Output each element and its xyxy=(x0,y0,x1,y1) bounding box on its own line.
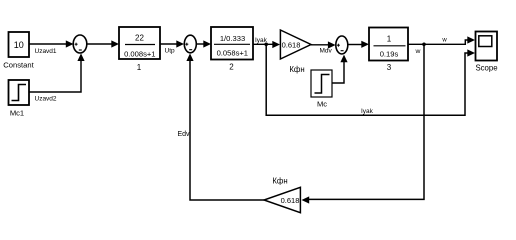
svg-text:1: 1 xyxy=(387,35,392,44)
svg-text:3: 3 xyxy=(387,63,392,72)
transfer function block 3 (1 / 0.19s) xyxy=(369,28,408,73)
step source Mc1 xyxy=(9,80,30,118)
svg-text:Iyak: Iyak xyxy=(361,108,374,115)
svg-text:Кфн: Кфн xyxy=(289,65,304,74)
svg-text:Uzavd2: Uzavd2 xyxy=(35,96,57,103)
svg-text:w: w xyxy=(415,48,421,55)
svg-text:0.618: 0.618 xyxy=(282,41,301,50)
svg-text:Mc: Mc xyxy=(317,100,327,109)
gain block Kfn top (0.618) xyxy=(280,30,311,74)
sum junction S2 xyxy=(184,35,196,53)
svg-text:Кфн: Кфн xyxy=(272,177,287,186)
svg-text:w: w xyxy=(441,38,447,44)
scope block Scope xyxy=(475,32,497,73)
svg-text:0.19s: 0.19s xyxy=(380,50,399,59)
gain block Kfn bottom (0.618) xyxy=(264,177,300,213)
junction node on Iyak wire xyxy=(264,43,268,47)
constant block Constant value 10 xyxy=(3,32,34,70)
svg-text:Scope: Scope xyxy=(475,64,497,73)
svg-text:Constant: Constant xyxy=(3,61,34,70)
wire S3 to block 3 xyxy=(348,41,369,48)
wire w to Scope input 1 xyxy=(408,36,475,55)
svg-text:0.618: 0.618 xyxy=(281,196,300,205)
svg-text:Mc1: Mc1 xyxy=(10,109,24,118)
transfer function block 2 (1/0.333 / 0.058s+1) xyxy=(211,27,253,72)
svg-text:Mdv: Mdv xyxy=(320,48,333,55)
wire w feedback down to gain Kfn bottom xyxy=(302,44,425,203)
junction node on w wire xyxy=(422,43,426,47)
wire Uzavd1 xyxy=(29,40,74,55)
svg-text:0.058s+1: 0.058s+1 xyxy=(217,49,248,58)
wire Mc to S3 xyxy=(332,55,348,83)
wire Uzavd2 xyxy=(29,53,85,102)
svg-text:2: 2 xyxy=(229,63,234,72)
step source Mc xyxy=(311,70,332,109)
svg-text:10: 10 xyxy=(14,40,24,50)
wire Iyak feedback to Scope input 2 xyxy=(266,44,475,115)
svg-text:Edv: Edv xyxy=(178,131,191,138)
wire Mdv xyxy=(311,41,336,54)
svg-text:0.008s+1: 0.008s+1 xyxy=(124,50,155,59)
svg-text:Uzavd1: Uzavd1 xyxy=(35,48,57,55)
svg-text:1/0.333: 1/0.333 xyxy=(220,34,245,43)
wire Iyak (block 2 output) xyxy=(253,37,280,48)
wire Utp xyxy=(160,40,184,54)
wire Edv (feedback into S2) xyxy=(178,53,265,200)
sum junction S1 xyxy=(73,35,87,53)
sum junction S3 xyxy=(336,36,348,54)
wire S2 to block 2 xyxy=(196,40,211,47)
wire S1 to block 1 xyxy=(86,40,119,47)
svg-text:1: 1 xyxy=(137,63,142,72)
transfer function block 1 (22 / 0.008s+1) xyxy=(119,27,160,72)
svg-text:Utp: Utp xyxy=(165,48,176,55)
svg-text:22: 22 xyxy=(135,34,144,43)
